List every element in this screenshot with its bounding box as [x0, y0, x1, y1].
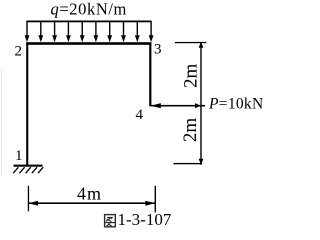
svg-text:2m: 2m	[180, 63, 201, 88]
bottom dimension right tick	[155, 186, 156, 213]
right dimension bottom arrow (down)	[199, 159, 204, 165]
fixed support ground line at node 1	[14, 165, 43, 167]
bottom dimension left arrow (pointing left)	[28, 201, 38, 206]
fixed support hatching	[13, 167, 43, 173]
member 2-3 (top beam)	[26, 42, 151, 45]
force P arrow line	[151, 105, 205, 107]
right dimension top arrow (up)	[199, 42, 204, 48]
member 3-4 (right column)	[149, 42, 151, 106]
faint left scan edge	[1, 70, 2, 175]
caption glyph 图 (drawn)	[105, 215, 116, 227]
svg-text:4m: 4m	[77, 183, 102, 203]
member 1-2 (left column)	[26, 42, 28, 165]
bottom dimension right arrow (pointing right)	[145, 201, 155, 206]
right dimension middle arrow at node 4 level	[195, 103, 201, 108]
force P arrowhead (pointing left at node 4)	[151, 103, 161, 108]
svg-text:2m: 2m	[180, 118, 201, 143]
bottom dimension line (4m)	[28, 202, 155, 204]
distributed load q line	[26, 21, 151, 23]
svg-text:1: 1	[15, 148, 23, 164]
svg-text:3: 3	[154, 42, 162, 58]
right dimension bottom extension tick	[174, 163, 203, 164]
svg-text:1-3-107: 1-3-107	[118, 210, 172, 229]
distributed load arrows	[25, 21, 154, 42]
right dimension vertical line	[200, 42, 201, 164]
svg-text:P=10kN: P=10kN	[208, 96, 263, 113]
bottom dimension left tick	[28, 186, 29, 212]
svg-text:q=20kN/m: q=20kN/m	[51, 0, 127, 18]
right dimension top extension tick	[175, 42, 206, 43]
svg-text:4: 4	[136, 107, 144, 123]
svg-text:2: 2	[15, 44, 23, 60]
